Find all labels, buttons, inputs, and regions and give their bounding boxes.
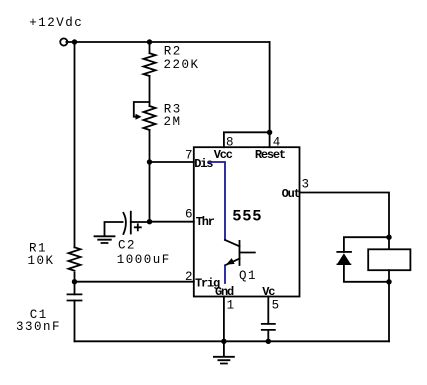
svg-text:3: 3 [302,178,310,192]
wire diode top [344,237,389,252]
wire relay top stub [388,237,390,249]
svg-text:330nF: 330nF [16,320,61,334]
wire diode bottom [344,264,389,282]
resistor R2 [144,53,156,76]
label R2 value [164,45,200,73]
wire relay bottom stub [388,270,390,282]
wire top rail [66,41,269,43]
capacitor C1 [68,294,82,300]
wire thr [150,221,194,223]
wire R2 to R3 [149,76,151,106]
wire right drop to rail [388,282,390,342]
svg-text:7: 7 [185,148,193,162]
wire C2 left to ground [105,222,123,235]
svg-text:Thr: Thr [196,215,215,229]
junction gnd [221,339,226,344]
junction pins 8-4 [267,130,272,135]
wire left vertical to R1 [74,42,76,247]
svg-text:R2: R2 [164,45,182,59]
wire C1 to bottom rail [74,301,76,342]
svg-text:1: 1 [227,298,235,312]
wire R3 to thr node [149,130,151,222]
wire gnd pin stub [223,297,225,342]
transistor Q1 [239,241,241,265]
wire dis [150,161,194,163]
svg-text:2M: 2M [164,115,182,129]
junction relay bottom [386,279,391,284]
svg-text:C2: C2 [118,238,136,252]
label Q1 [239,269,257,283]
svg-text:Q1: Q1 [239,269,257,283]
wire C3 to rail [267,330,269,341]
capacitor C3 [262,324,275,330]
junction vc rail [266,339,271,344]
wire R1 to C1 [74,273,76,295]
ground main [214,341,234,363]
diode D1 [337,251,351,253]
wire pin4 stub [269,132,271,147]
capacitor C2 [123,213,125,234]
svg-text:10K: 10K [28,254,55,268]
svg-text:6: 6 [185,208,193,222]
wire middle vertical to R2 [149,42,151,53]
junction trig node [72,279,77,284]
resistor R1 [69,247,81,270]
svg-text:Out: Out [282,187,301,201]
svg-text:+12Vdc: +12Vdc [29,16,83,30]
svg-text:2: 2 [185,270,193,284]
wire internal dis blue [209,162,225,240]
svg-text:Reset: Reset [255,148,286,162]
junction dis node [147,159,152,164]
junction at R1 top [72,39,77,44]
label 555 [232,208,262,226]
junction at R2 top [147,39,152,44]
svg-text:5: 5 [272,298,280,312]
junction relay top [386,235,391,240]
svg-text:4: 4 [273,136,281,150]
wire out [300,193,390,238]
+12Vdc terminal [60,38,67,45]
op 555 box U1 [194,147,300,296]
wire internal emitter blue [224,265,226,283]
wire C2 right to thr node [131,221,150,223]
wire bottom rail [75,340,390,342]
node +12Vdc label [29,16,83,30]
wire pin8 feed [224,132,270,147]
wire right drop to reset [269,42,271,132]
wire trig [75,281,194,283]
svg-text:555: 555 [232,208,262,226]
relay coil K1 [368,249,410,270]
wire vc pin stub [267,297,269,324]
ground for C2 [95,236,115,243]
potentiometer R3 [144,106,156,130]
label C1 value [16,308,61,334]
svg-text:8: 8 [226,136,234,150]
junction thr node [147,219,152,224]
svg-text:1000uF: 1000uF [117,253,171,267]
label C2 value [117,238,171,267]
svg-text:Vcc: Vcc [214,148,233,162]
label R3 value [164,103,182,129]
label R1 value [28,241,55,267]
svg-text:220K: 220K [164,58,200,72]
svg-text:Dis: Dis [194,157,213,171]
